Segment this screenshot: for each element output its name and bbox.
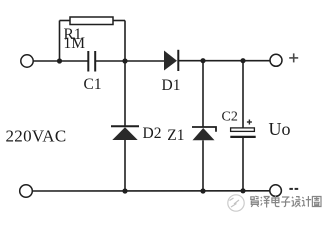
wire: C2 branch lower (242, 137, 244, 191)
capacitor C1 left plate (87, 51, 89, 72)
wire: R1 top left lead (60, 20, 71, 22)
junction top rail / C2 branch (240, 58, 245, 63)
glyph 7 (312, 197, 321, 207)
diode D2 triangle (pointing up) (112, 127, 137, 140)
svg-text:D1: D1 (162, 77, 181, 94)
terminal: AC input bottom-left (20, 185, 33, 198)
svg-text:C2: C2 (222, 110, 238, 125)
diode D2 cathode bar (111, 125, 139, 127)
terminal: output + top-right (270, 54, 282, 66)
wire: R1 left leg up (59, 21, 61, 62)
wire: C2 branch upper (242, 61, 244, 128)
glyph 6 (302, 196, 311, 207)
svg-text:Z1: Z1 (167, 127, 184, 144)
capacitor C2 negative plate (solid) (230, 136, 255, 138)
capacitor C1 right plate (94, 51, 96, 72)
wire: top rail left segment (terminal to C1 left plate) (33, 60, 87, 62)
watermark logo (228, 195, 244, 211)
diode D1 cathode bar (177, 50, 179, 71)
wire: R1 right leg down to top rail (124, 21, 126, 62)
wire: top rail C1 to D1 (95, 60, 164, 62)
svg-text:C1: C1 (84, 76, 102, 93)
wire: R1 top right lead (113, 20, 125, 22)
resistor R1 body (70, 17, 113, 25)
svg-text:D2: D2 (143, 125, 162, 142)
junction top rail / R1 left leg (57, 58, 62, 63)
minus minus sign at output bottom-right (289, 188, 298, 190)
zener Z1 cathode bar with bent end (192, 127, 216, 132)
plus sign at C2 (247, 120, 252, 125)
junction bottom rail / Z1 branch (200, 188, 205, 193)
plus sign at output top-right (289, 53, 298, 62)
wire: D2 branch upper (124, 61, 126, 126)
diode D1 triangle (164, 51, 177, 71)
svg-text:1M: 1M (64, 35, 86, 52)
wire: D2 branch lower (124, 140, 126, 191)
zener Z1 triangle (pointing up) (193, 128, 215, 140)
svg-text:Uo: Uo (269, 119, 291, 139)
capacitor C2 positive plate (hollow) (231, 128, 255, 131)
glyph 5 (292, 197, 301, 208)
glyph 1 (251, 196, 259, 207)
wire: bottom rail (32, 190, 269, 192)
junction bottom rail / D2 branch (122, 188, 127, 193)
glyph 3 (272, 196, 280, 207)
glyph 2 (261, 197, 270, 208)
terminal: AC input top-left (21, 55, 33, 67)
junction bottom rail / C2 branch (240, 188, 245, 193)
glyph 4 (281, 197, 290, 207)
svg-text:220VAC: 220VAC (6, 127, 67, 146)
wire: top rail D1 to output terminal (178, 60, 269, 62)
junction top rail / D2 branch (122, 58, 127, 63)
watermark text (mock CJK glyphs) (251, 196, 321, 208)
wire: Z1 branch lower (202, 140, 204, 191)
terminal: output - bottom-right (270, 185, 282, 197)
junction top rail / Z1 branch (200, 58, 205, 63)
wire: Z1 branch upper (202, 61, 204, 127)
